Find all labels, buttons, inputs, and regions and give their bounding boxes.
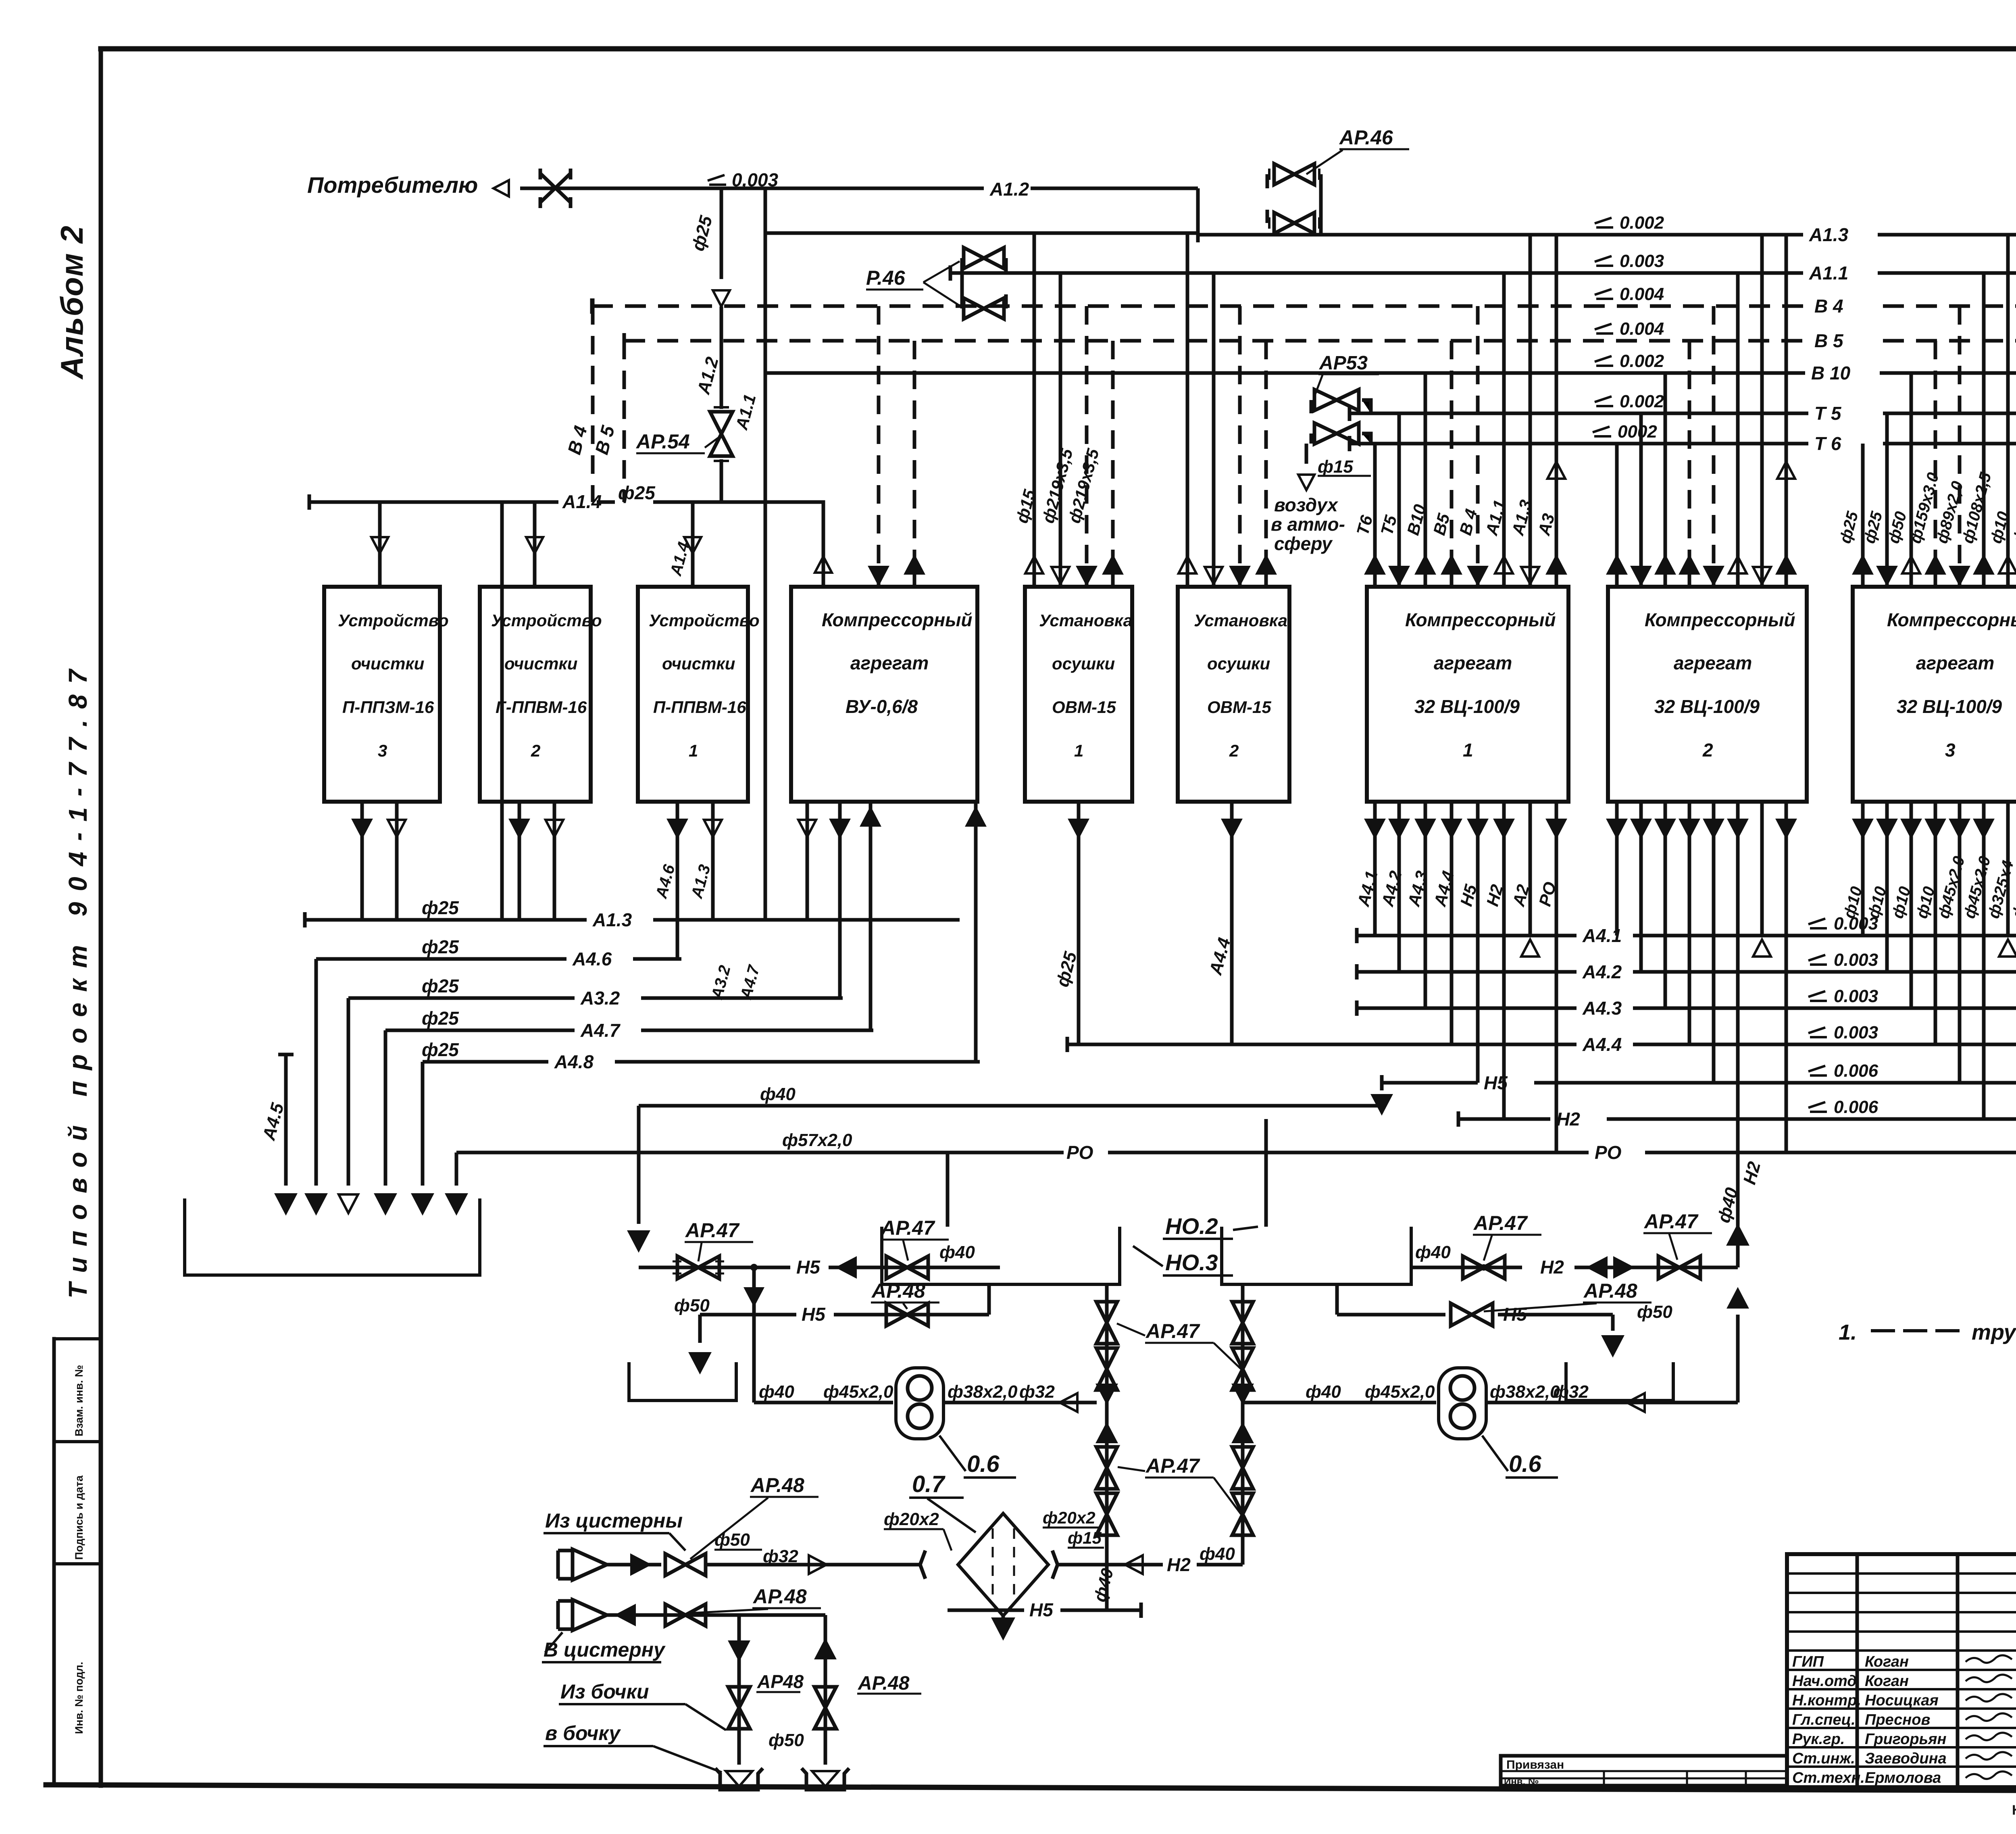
svg-text:АР.48: АР.48	[858, 1673, 910, 1694]
svg-text:очистки: очистки	[662, 654, 735, 673]
svg-text:Компрессорный: Компрессорный	[1887, 609, 2016, 630]
feed drop x=4190 from bus y=845	[1688, 341, 1691, 587]
svg-text:ф25: ф25	[422, 897, 459, 918]
drain drop x=3470 to y=2410	[1397, 802, 1401, 972]
drain drop x=2159 to y=2555	[869, 802, 873, 1030]
equipment box K3 32 ВЦ-100/9 2	[1608, 587, 1807, 802]
diameter ф50 on А4.1	[1355, 928, 1359, 943]
drain drop x=1768 to y=2281	[711, 802, 715, 920]
valve АР.48 on cistern inlet	[665, 1554, 706, 1576]
svg-text:Из бочки: Из бочки	[560, 1680, 649, 1703]
feed drop x=4310 from bus y=677	[1736, 273, 1740, 587]
drain drop vent x=4370	[1760, 802, 1764, 936]
feed drop x=4980 from bus y=582	[2006, 235, 2010, 587]
drain drop x=4070 to y=2410	[1639, 802, 1643, 972]
svg-text:очистки: очистки	[504, 654, 577, 673]
sheet frame left border	[99, 49, 103, 1786]
manifold А4.2	[1357, 970, 2016, 974]
svg-text:А1.3: А1.3	[1809, 224, 1849, 245]
svg-text:ф50: ф50	[1637, 1302, 1672, 1322]
slope label 0.002 on А1.3	[1595, 218, 1613, 227]
feed drop x=4250 from bus y=759	[1712, 306, 1716, 587]
slope label 0.002 on В10	[1595, 356, 1613, 366]
feed drop x=4800 from bus y=845	[1934, 341, 1937, 587]
svg-text:НО.2: НО.2	[1165, 1213, 1218, 1239]
drain drop x=4680 to y=2410	[1885, 802, 1889, 972]
svg-text:Рук.гр.: Рук.гр.	[1792, 1731, 1845, 1748]
bus pipe А1.1	[950, 271, 2016, 275]
manifold А4.7	[385, 1029, 873, 1032]
drain drop x=2675 to y=2590	[1077, 802, 1081, 1044]
svg-text:НО.3: НО.3	[1165, 1250, 1218, 1275]
equipment box K4 32 ВЦ-100/9 3	[1853, 587, 2016, 802]
slope 0.003 on А4.2	[1808, 955, 1827, 965]
sheet frame bottom border	[46, 1785, 2016, 1792]
slope label 0.002 on Т5	[1595, 396, 1613, 406]
svg-text:1: 1	[689, 741, 698, 760]
svg-text:2: 2	[1702, 740, 1713, 761]
svg-text:В цистерну: В цистерну	[544, 1638, 666, 1661]
svg-text:Ст.техн.: Ст.техн.	[1792, 1769, 1865, 1786]
drain drop x=3410 to y=2320	[1373, 802, 1377, 936]
feed drop x=3860 from bus y=582	[1555, 235, 1558, 587]
svg-text:А4.4: А4.4	[1582, 1034, 1622, 1055]
valve column АР.47 x=2745	[1105, 1284, 1109, 1609]
svg-text:0.006: 0.006	[1834, 1097, 1879, 1117]
bus pipe Т5	[1350, 412, 2016, 415]
drain drop x=2083 to y=2475	[838, 802, 842, 998]
branch ф25/А1.2 with valve АР.54	[720, 188, 723, 502]
feed drop x=3470 from bus y=1025	[1397, 413, 1401, 587]
pipe ф40/Н5 from valve node	[639, 1106, 1382, 1224]
svg-text:осушки: осушки	[1207, 654, 1270, 673]
svg-text:ф57х2,0: ф57х2,0	[782, 1130, 852, 1150]
long vertical from А1.2 pipe down to left manifold	[764, 188, 767, 920]
manifold А4.8 drop to tank	[421, 1062, 425, 1186]
feed drop x=3410 from bus y=1100	[1373, 444, 1377, 587]
flow meter 0.6 left	[896, 1368, 943, 1439]
svg-text:Инв. № подл.: Инв. № подл.	[73, 1662, 85, 1734]
svg-text:0,003: 0,003	[732, 169, 779, 190]
svg-text:Подпись и дата: Подпись и дата	[73, 1475, 85, 1560]
drain drop x=3055 to y=2590	[1230, 802, 1234, 1044]
svg-text:А4.2: А4.2	[1582, 961, 1622, 982]
left flow meter line	[754, 1401, 1097, 1405]
slope 0.003 on А4.3	[1808, 991, 1827, 1001]
tank (drain collection) bottom left	[185, 1198, 480, 1275]
svg-text:ф50: ф50	[768, 1730, 804, 1750]
open arrow on А3 drop	[1547, 462, 1565, 479]
svg-text:АР.47: АР.47	[880, 1217, 935, 1239]
manifold Н2	[1458, 1117, 2016, 1121]
drain drop x=3535 to y=2500	[1424, 802, 1427, 1008]
svg-text:В 5: В 5	[1814, 330, 1844, 351]
svg-text:АР.48: АР.48	[752, 1585, 807, 1608]
svg-text:32 ВЦ-100/9: 32 ВЦ-100/9	[1654, 696, 1760, 717]
svg-text:ф40: ф40	[760, 1084, 796, 1104]
drain drop x=1288 to y=2281	[518, 802, 521, 920]
feed drop x=3730 from bus y=677	[1502, 273, 1506, 587]
valve column АР.47 x=3082	[1241, 1284, 1245, 1565]
drain drop x=2002 to y=2281	[806, 802, 809, 920]
drain drop x=4620 to y=2320	[1861, 802, 1865, 936]
svg-text:0.6: 0.6	[1509, 1451, 1541, 1477]
svg-text:АР.46: АР.46	[1339, 126, 1393, 149]
svg-text:ф38х2,0: ф38х2,0	[948, 1382, 1018, 1402]
sheet frame top border	[101, 46, 2016, 52]
svg-text:ф25: ф25	[422, 975, 459, 996]
svg-text:Ермолова: Ермолова	[1865, 1769, 1941, 1786]
shut-off valve on consumer pipe	[540, 169, 571, 208]
junction dot	[750, 1264, 758, 1271]
slope label 0002 on Т6	[1593, 427, 1611, 436]
diameter ф50 on А4.2	[1355, 964, 1359, 980]
feed drop x=4860 from bus y=759	[1958, 306, 1962, 587]
equipment box O1 ОВМ-15 1	[1025, 587, 1132, 802]
svg-text:ф40: ф40	[759, 1382, 794, 1402]
svg-text:0.006: 0.006	[1834, 1061, 1879, 1081]
funnel inlet (cistern)	[558, 1551, 573, 1579]
slope 0.006 on Н5	[1808, 1066, 1827, 1075]
svg-text:Потребителю: Потребителю	[307, 172, 478, 198]
bus pipe А1.3	[1198, 233, 2016, 237]
svg-text:ф40: ф40	[1200, 1544, 1235, 1564]
manifold Н5	[1382, 1081, 2016, 1085]
svg-text:А4.7: А4.7	[580, 1020, 621, 1041]
feed drop into purification box at x=942	[378, 502, 382, 587]
svg-text:Инв. №: Инв. №	[1504, 1776, 1539, 1787]
feed drop x=4680 from bus y=1025	[1885, 413, 1889, 587]
drain drop x=3860 to y=2858	[1555, 802, 1558, 1153]
arrow into box K1	[815, 556, 832, 573]
svg-text:3: 3	[1945, 740, 1956, 761]
drain drop x=4920 to y=2775	[1982, 802, 1986, 1119]
small tank right	[1566, 1362, 1673, 1401]
svg-text:3: 3	[378, 741, 387, 760]
svg-text:ф25: ф25	[422, 1008, 459, 1029]
vertical link х1245	[500, 502, 504, 920]
svg-text:0.004: 0.004	[1620, 284, 1664, 304]
svg-text:ф20х2: ф20х2	[1043, 1508, 1095, 1527]
drain drop vent x=4980	[2006, 802, 2010, 936]
svg-text:Н2: Н2	[1167, 1554, 1191, 1575]
svg-text:0.002: 0.002	[1620, 213, 1664, 233]
dashed drop В5 left	[623, 341, 626, 502]
right flow meter line	[1243, 1315, 1738, 1403]
svg-text:в бочку: в бочку	[545, 1722, 621, 1744]
svg-text:0.002: 0.002	[1620, 392, 1664, 411]
svg-text:2: 2	[1229, 741, 1239, 760]
manifold А4.8	[423, 1060, 980, 1064]
feed drop into purification box at x=1718	[691, 502, 695, 587]
Н2 valve line right	[1411, 1266, 1738, 1269]
svg-text:Устройство: Устройство	[649, 611, 760, 630]
feed drop x=4920 from bus y=677	[1982, 273, 1986, 587]
equipment box U2 Г-ППВМ-16 2	[480, 587, 591, 802]
Н5 manifold left end arrow down	[1372, 1095, 1391, 1113]
long vertical Н2 from box K3 down	[1736, 1119, 1740, 1267]
svg-text:А1.1: А1.1	[1809, 263, 1848, 283]
svg-text:агрегат: агрегат	[850, 652, 929, 673]
equipment box K2 32 ВЦ-100/9 1	[1367, 587, 1568, 802]
feed drop x=4740 from bus y=925	[1910, 373, 1913, 587]
feed drop x=2945 from bus y=582	[1186, 235, 1189, 587]
air vent drop ф15	[1305, 444, 1308, 464]
svg-text:Н5: Н5	[1484, 1072, 1508, 1093]
РО corner into tank	[455, 1153, 458, 1186]
svg-text:Компрессорный: Компрессорный	[822, 609, 973, 630]
svg-text:воздух: воздух	[1274, 494, 1339, 515]
svg-text:ф25: ф25	[422, 1039, 459, 1060]
slope label 0.004 on В5	[1595, 324, 1613, 333]
valve pair АР53 (between Т5 and Т6)	[1314, 390, 1359, 411]
barrel risers with valves АР.48	[739, 1615, 825, 1765]
diameter ф65 on Н2	[1457, 1111, 1460, 1127]
svg-text:Установка: Установка	[1039, 611, 1133, 630]
svg-text:АР.47: АР.47	[1643, 1210, 1699, 1233]
svg-text:0.003: 0.003	[1834, 986, 1878, 1006]
feed drop x=3535 from bus y=925	[1424, 373, 1427, 587]
svg-text:ф32: ф32	[763, 1546, 798, 1566]
privyazan table rect	[1501, 1756, 1787, 1786]
svg-text:Н5: Н5	[796, 1257, 821, 1278]
feed drop x=3075 from bus y=759	[1238, 306, 1242, 587]
svg-text:П-ППВМ-16: П-ППВМ-16	[653, 698, 746, 717]
equipment box U1 П-ППЗМ-16 3	[324, 587, 440, 802]
svg-text:ф40: ф40	[1306, 1382, 1341, 1402]
svg-text:1.: 1.	[1839, 1320, 1857, 1344]
svg-text:0.003: 0.003	[1620, 251, 1664, 271]
svg-text:ВУ-0,6/8: ВУ-0,6/8	[846, 696, 918, 717]
manifold А4.1	[1357, 934, 2016, 938]
flow meter 0.6 right	[1439, 1368, 1486, 1439]
svg-text:Т 6: Т 6	[1814, 433, 1841, 454]
svg-text:0.002: 0.002	[1620, 351, 1664, 371]
svg-text:Гл.спец.: Гл.спец.	[1792, 1711, 1856, 1728]
svg-text:Т 5: Т 5	[1814, 403, 1842, 424]
tank НО.2/НО.3 left	[882, 1227, 1120, 1284]
svg-text:А4.8: А4.8	[554, 1051, 594, 1072]
svg-text:Компрессорный: Компрессорный	[1405, 609, 1556, 630]
svg-text:АР.54: АР.54	[635, 430, 690, 453]
svg-text:Н2: Н2	[1556, 1109, 1580, 1130]
feed drop x=3665 from bus y=759	[1476, 306, 1480, 587]
feed drop x=2760 from bus y=845	[1111, 341, 1115, 587]
svg-text:Н.контр.: Н.контр.	[1792, 1692, 1861, 1709]
svg-text:0.7: 0.7	[912, 1471, 946, 1497]
svg-text:очистки: очистки	[351, 654, 424, 673]
svg-text:ф50: ф50	[674, 1296, 710, 1315]
feed drop x=4010 from bus y=1100	[1615, 444, 1619, 587]
equipment box U3 П-ППВМ-16 1	[638, 587, 748, 802]
svg-text:ф40: ф40	[939, 1242, 975, 1262]
svg-text:ф45х2,0: ф45х2,0	[823, 1382, 893, 1402]
bus pipe В5	[624, 339, 2016, 343]
pipe А1.4	[309, 502, 823, 587]
svg-text:Коган: Коган	[1865, 1673, 1909, 1690]
feed drop x=2630 from bus y=677	[1059, 273, 1062, 587]
drain drop x=4800 to y=2590	[1934, 802, 1937, 1044]
svg-text:трубопроводы раздела ВК: трубопроводы раздела ВК	[1972, 1320, 2016, 1344]
riser А4.5	[284, 1055, 288, 1186]
equipment box O2 ОВМ-15 2	[1178, 587, 1289, 802]
feed drop x=4370 from bus y=582	[1760, 235, 1764, 587]
svg-text:Н2: Н2	[1540, 1257, 1564, 1278]
drain drop А2 (vent) x=3795	[1529, 802, 1532, 936]
junction arrow up near Н2 riser	[1729, 1290, 1747, 1307]
svg-text:агрегат: агрегат	[1916, 652, 1994, 673]
drain drop x=4430 to y=2858	[1785, 802, 1788, 1153]
funnel outlet (cistern)	[558, 1601, 573, 1629]
feed drop x=2565 from bus y=582	[1033, 235, 1036, 587]
drain drop x=1680 to y=2378	[676, 802, 679, 959]
title block signature-table verticals	[1857, 1554, 2016, 1787]
svg-text:0002: 0002	[1618, 422, 1657, 442]
feed drop x=3600 from bus y=845	[1450, 341, 1454, 587]
title block outer rect	[1787, 1554, 2016, 1787]
svg-text:П-ППЗМ-16: П-ППЗМ-16	[342, 698, 434, 717]
feed drop x=3795 from bus y=582	[1529, 235, 1532, 587]
feed drop x=2695 from bus y=759	[1085, 306, 1089, 587]
svg-text:2: 2	[531, 741, 540, 760]
svg-text:АР53: АР53	[1319, 352, 1368, 374]
svg-text:АР.48: АР.48	[871, 1280, 925, 1302]
bus pipe В10	[765, 371, 2016, 375]
svg-text:В 10: В 10	[1811, 363, 1851, 383]
svg-text:ф40: ф40	[1415, 1242, 1451, 1262]
svg-text:ф25: ф25	[422, 936, 459, 957]
svg-text:ф15: ф15	[1318, 457, 1353, 477]
slope label 0.003 on А1.1	[1595, 256, 1613, 266]
diameter ф65 on Н5	[1380, 1075, 1384, 1090]
svg-text:ф32: ф32	[1553, 1382, 1589, 1402]
feed drop into purification box at x=1326	[533, 502, 537, 587]
manifold А3.2 drop to tank	[347, 998, 350, 1186]
svg-text:Григорьян: Григорьян	[1865, 1731, 1946, 1748]
feed drop x=3140 from bus y=845	[1264, 341, 1268, 587]
manifold РО	[456, 1151, 2016, 1155]
manifold А4.4	[1067, 1043, 2016, 1046]
ф50 drop to small tank left	[698, 1315, 702, 1343]
valve pair АР.46 upper (bypass on А1.2)	[1274, 164, 1314, 185]
dashed drop В4 left	[591, 306, 595, 502]
svg-text:в атмо-: в атмо-	[1271, 514, 1345, 535]
drain drop x=1375 to y=2281	[553, 802, 556, 920]
svg-text:1: 1	[1463, 740, 1473, 761]
svg-text:ОВМ-15: ОВМ-15	[1052, 698, 1116, 717]
svg-text:АР.48: АР.48	[1583, 1280, 1637, 1302]
small tank left	[629, 1362, 736, 1401]
svg-text:ф50: ф50	[714, 1530, 750, 1550]
slope 0.003 on А4.4	[1808, 1027, 1827, 1037]
Н5 lower branch left	[700, 1267, 989, 1315]
drain drop x=4860 to y=2685	[1958, 802, 1962, 1083]
Н5 bottom stub line	[948, 1609, 1141, 1612]
drain drop x=4250 to y=2685	[1712, 802, 1716, 1083]
svg-text:Копировал: Копировал	[2012, 1803, 2016, 1818]
Н5 valve line left	[639, 1266, 1000, 1269]
svg-text:Установка: Установка	[1194, 611, 1287, 630]
feed drop x=3010 from bus y=677	[1212, 273, 1216, 587]
tank НО.2/НО.3 right	[1222, 1227, 1411, 1284]
slope 0.006 on Н2	[1808, 1102, 1827, 1112]
svg-text:Нач.отд: Нач.отд	[1792, 1673, 1857, 1690]
svg-text:А1.4: А1.4	[562, 491, 602, 512]
drops from РО into tanks	[948, 1119, 1266, 1227]
svg-text:Н5: Н5	[1503, 1304, 1527, 1325]
corner А1.2 down to А1.3 bus	[1196, 188, 1200, 235]
drain drop x=4310 to y=2775	[1736, 802, 1740, 1119]
slope 0.003 on А4.1	[1808, 919, 1827, 928]
svg-text:Устройство: Устройство	[338, 611, 449, 630]
manifold А3.2	[348, 996, 843, 1000]
svg-text:0.6: 0.6	[967, 1451, 1000, 1477]
valve pair АР.46 left (bypass on А1.1)	[964, 248, 1004, 269]
svg-text:0.004: 0.004	[1620, 319, 1664, 339]
feed drop x=4130 from bus y=925	[1664, 373, 1667, 587]
svg-text:АР48: АР48	[757, 1671, 804, 1692]
svg-text:АР.48: АР.48	[750, 1474, 804, 1496]
bus pipe В4	[592, 304, 2016, 308]
svg-text:ф32: ф32	[1019, 1382, 1055, 1402]
drain drop x=4130 to y=2500	[1664, 802, 1667, 1008]
drain drop x=984 to y=2281	[395, 802, 399, 920]
svg-text:РО: РО	[1066, 1142, 1093, 1163]
manifold А1.3	[305, 918, 960, 922]
svg-text:А4.6: А4.6	[572, 948, 612, 969]
svg-text:Коган: Коган	[1865, 1653, 1909, 1670]
filter 0.7 diamond	[920, 1551, 925, 1579]
svg-text:А4.3: А4.3	[1582, 998, 1622, 1019]
svg-text:АР.47: АР.47	[1473, 1212, 1528, 1234]
arrow to consumer	[494, 180, 509, 196]
valve АР.54	[710, 412, 733, 456]
feed drop x=4430 from bus y=582	[1785, 235, 1788, 587]
svg-text:РО: РО	[1595, 1142, 1622, 1163]
svg-text:Н5: Н5	[802, 1304, 826, 1325]
svg-text:АР.47: АР.47	[685, 1219, 740, 1242]
title block signature-table row lines	[1787, 1573, 2016, 1767]
manifold А4.7 drop to tank	[384, 1030, 387, 1186]
svg-text:0.003: 0.003	[1834, 950, 1878, 970]
svg-text:0.003: 0.003	[1834, 1023, 1878, 1042]
svg-text:1: 1	[1074, 741, 1083, 760]
svg-text:Альбом 2: Альбом 2	[54, 226, 90, 380]
svg-text:А1.2: А1.2	[989, 179, 1029, 200]
barrel funnels	[715, 1768, 763, 1790]
svg-text:Из цистерны: Из цистерны	[545, 1509, 683, 1532]
drain drop x=4010 to y=2320	[1615, 802, 1619, 936]
svg-text:Заеводина: Заеводина	[1865, 1750, 1947, 1767]
svg-text:ОВМ-15: ОВМ-15	[1207, 698, 1271, 717]
svg-text:Преснов: Преснов	[1865, 1711, 1930, 1728]
dashed drops В4 В5 into compressor K1	[877, 306, 881, 587]
bus pipe Т6	[1350, 442, 2016, 446]
svg-text:ф45х2,0: ф45х2,0	[1365, 1382, 1435, 1402]
svg-text:осушки: осушки	[1052, 654, 1115, 673]
svg-text:0.003: 0.003	[1834, 914, 1878, 934]
manifold А4.6 drop to tank	[314, 959, 318, 1186]
manifold А4.3	[1357, 1007, 2016, 1010]
feed drop x=4620 from bus y=1100	[1861, 444, 1865, 587]
svg-text:Устройство: Устройство	[491, 611, 602, 630]
drain drop x=3730 to y=2775	[1502, 802, 1506, 1119]
drain drop x=3600 to y=2590	[1450, 802, 1454, 1044]
svg-text:В 4: В 4	[1814, 296, 1843, 317]
svg-text:АР.47: АР.47	[1145, 1320, 1200, 1342]
diameter ф50 on А4.3	[1355, 1000, 1359, 1016]
privyazan table inner lines	[1501, 1771, 1787, 1786]
